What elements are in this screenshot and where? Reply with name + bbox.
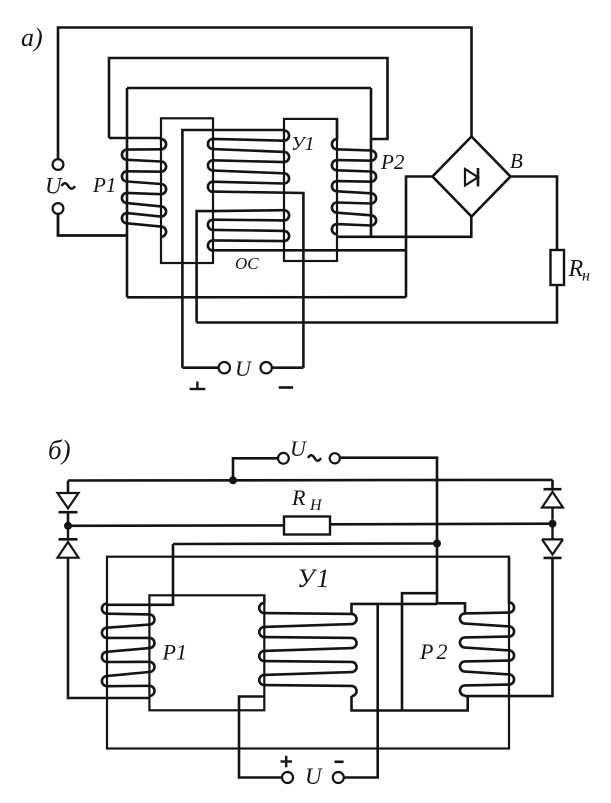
winding P2 (diagram b) [460,557,514,696]
winding У1 (diagram a) [208,131,289,192]
wire - lead (diagram b) [344,604,378,778]
junction dot on R bottom line [433,540,441,548]
svg-text:ОС: ОС [235,254,259,273]
winding У1 (diagram b) [259,595,356,696]
terminal circle - (diagram b) [333,772,344,783]
box P1 [149,595,264,710]
junction dot U~ left [229,476,237,484]
wire top rail to right diodes [551,480,554,489]
wire OC entry [197,211,213,322]
plus symbol (diagram b) [281,760,293,762]
svg-text:б): б) [48,435,71,465]
terminal circle - (diagram a) [261,362,272,373]
wire bridge left terminal to node [406,177,433,298]
wire U~ right lead (down to У1 line) [340,458,437,604]
wire third loop (left line top to P2 right line top) [127,87,371,90]
svg-text:В: В [510,149,523,173]
wire VD2 to winding P1 bottom [68,558,149,698]
svg-text:U: U [305,764,323,789]
junction dot left diode node [64,522,72,530]
diode VD3 (right, pointing up) [544,488,562,491]
diode symbol inside bridge [465,169,478,186]
wire to + terminal (diagram a) [182,366,218,369]
wire U~ left lead [233,458,278,480]
wire P2 exit to bridge bottom [337,217,471,237]
terminal circle U~ left (diagram b) [278,453,289,464]
wire second loop (P1 top to P2 right line) [109,58,388,139]
wire VD1 to node [67,512,70,526]
minus symbol (diagram a) [279,386,293,389]
winding OC (feedback) [208,210,289,250]
wire У1 exit (to - terminal) [213,192,303,368]
winding P1 (diagram b) [102,604,155,697]
core rectangle 1 (P1/У1 limb) [161,118,213,263]
svg-text:Р2: Р2 [419,639,450,664]
wire top rail (diagram b) [68,479,553,482]
svg-text:U: U [290,436,308,461]
winding P2 [332,119,376,234]
wire load R to bottom return [197,285,557,323]
svg-text:У1: У1 [297,564,332,593]
svg-text:н: н [582,268,590,285]
diode VD4 (right, pointing down) [551,524,553,540]
svg-text:а): а) [21,23,43,52]
wire VD4 to winding P2 bottom [465,558,553,696]
terminal circle U~ top [53,159,64,170]
wire left node to load R (diagram b) [68,524,284,527]
core rectangle 2 (У1/P2 limb) [284,119,337,261]
wire bridge right to load R [511,177,558,251]
box P2 [402,593,437,710]
wire mid rail (dot to riser) [173,542,437,545]
wire load R to right node (diagram b) [330,522,553,525]
rectifier bridge B diamond [433,137,511,217]
resistor R_n (diagram b) [284,517,330,535]
wire OC exit to node [213,249,406,252]
diode VD1 (left, pointing down) [58,493,79,508]
svg-text:R: R [291,485,306,510]
wire P2 right line [370,88,373,237]
wire У1 winding exit / P2 box bottom [352,696,468,711]
wire + lead (diagram b) [239,697,282,778]
svg-text:Р1: Р1 [92,173,116,197]
svg-text:Н: Н [309,497,323,514]
svg-text:У1: У1 [291,133,314,155]
wire U~ top to bridge (outer loop) [58,28,472,160]
svg-text:Р1: Р1 [162,640,187,665]
wire У1 entry (from + terminal) [182,130,284,368]
wire P1 entry [109,137,161,140]
junction dot right diode node [549,520,557,528]
resistor R_n (load) [551,250,565,285]
wire U~ lead elbow to У1 line top [352,604,438,614]
wire from - terminal (diagram a) [272,366,303,369]
wire U~ bottom to node at left line [58,214,127,236]
svg-text:U: U [45,174,63,199]
minus symbol (diagram b) [335,760,344,763]
terminal circle U~ right (diagram b) [330,453,340,463]
diode VD2 (left, pointing up) [67,526,69,540]
wire bottom rail (left line to bridge-left riser) [127,296,406,299]
svg-text:Р2: Р2 [380,150,405,174]
wire left line of P1 / to bottom rail [126,88,129,297]
terminal circle + (diagram b) [282,772,293,783]
svg-text:U: U [235,356,253,381]
wire riser to P1 winding entry [107,544,173,605]
terminal circle U~ bottom [53,203,64,214]
box У1 (big core outline) [107,557,509,749]
plus symbol (diagram a) [190,388,206,390]
wire top rail to left diodes [67,481,70,494]
terminal circle + (diagram a) [219,362,230,373]
winding P1 [122,138,166,237]
